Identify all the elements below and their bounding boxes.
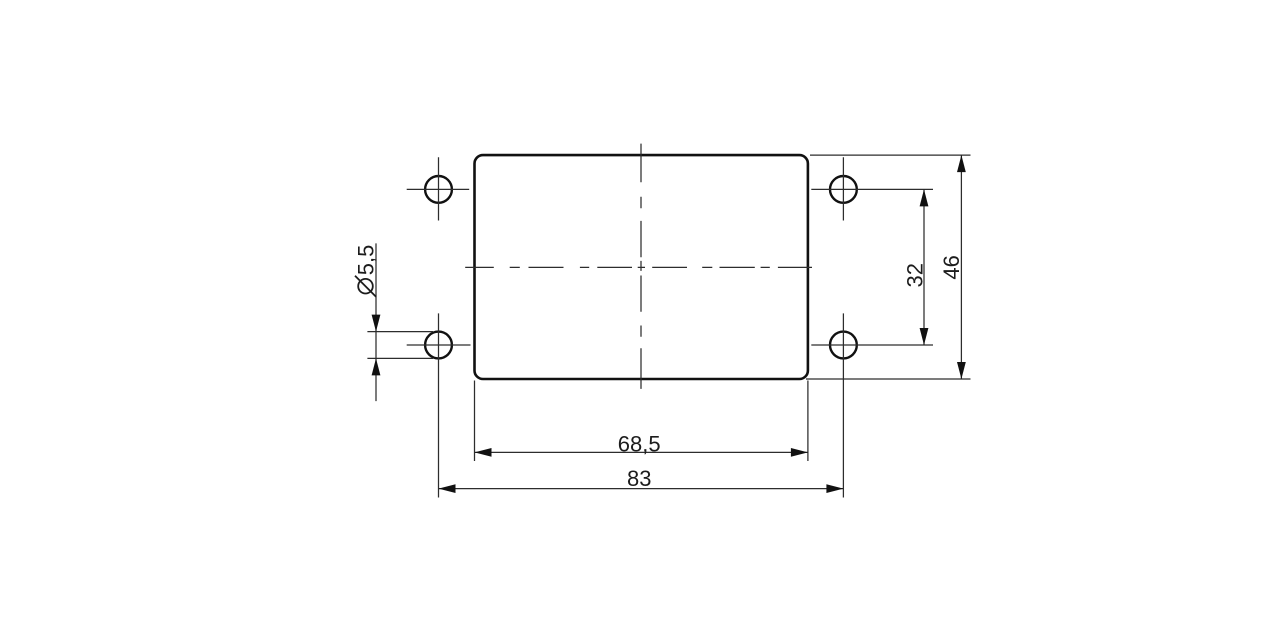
dimension 46: dimension line xyxy=(960,155,962,379)
dimension 46: top arrow xyxy=(957,155,966,172)
dimension 68.5: left arrow xyxy=(475,448,492,457)
dimension 46: extension lines xyxy=(806,155,971,379)
crosshair bottom-left hole (vertical extended as extension line for 83) xyxy=(407,313,471,497)
dimension 83: right arrow xyxy=(826,484,843,493)
svg-text:68,5: 68,5 xyxy=(618,431,661,456)
dimension 5.5: lower arrow (pointing up) xyxy=(372,358,381,375)
svg-text:46: 46 xyxy=(939,255,964,279)
dimension 5.5: extension lines (hole tangents) xyxy=(367,332,433,359)
svg-text:83: 83 xyxy=(627,466,651,491)
dimension 83: left arrow xyxy=(439,484,456,493)
dimension 46: bottom arrow xyxy=(957,362,966,379)
vertical centerline xyxy=(640,144,642,389)
dimension 5.5: dimension line with tails xyxy=(375,243,377,401)
dimension 68.5: extension lines xyxy=(475,381,808,462)
crosshair bottom-right hole (extended right for 32, down for 83) xyxy=(811,313,933,497)
dimension 68.5: right arrow xyxy=(791,448,808,457)
dimension 68.5: dimension line xyxy=(475,451,808,453)
dimension 5.5: upper arrow (pointing down) xyxy=(372,315,381,332)
dimension 83: dimension line xyxy=(439,488,844,490)
mounting hole bottom-right xyxy=(830,332,857,359)
mounting hole top-right xyxy=(830,176,857,203)
horizontal centerline xyxy=(465,266,812,268)
mounting hole bottom-left xyxy=(425,332,452,359)
mounting hole top-left xyxy=(425,176,452,203)
panel cutout outline xyxy=(475,155,808,379)
diameter symbol for 5,5 xyxy=(355,276,376,297)
crosshair top-left hole xyxy=(407,157,470,220)
crosshair top-right hole (horizontal extended as extension line for 32) xyxy=(811,157,933,220)
dimension 32: dimension line xyxy=(923,189,925,345)
svg-text:32: 32 xyxy=(902,263,927,287)
dimension 32: bottom arrow xyxy=(920,328,929,345)
dimension 32: top arrow xyxy=(920,189,929,206)
svg-text:5,5: 5,5 xyxy=(354,245,379,276)
